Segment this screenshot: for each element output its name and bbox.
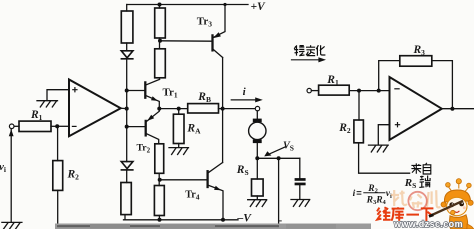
wire R2 to Rs terminal note	[359, 143, 410, 173]
wire colA bottom to -V	[124, 215, 126, 220]
formula equals sign	[357, 192, 362, 195]
wire colA to D1	[126, 43, 128, 51]
wire R3 to output	[432, 61, 453, 109]
wire capacitor stem	[299, 158, 301, 178]
arrow Tr1 emitter	[151, 96, 158, 101]
resistor colB second	[155, 49, 166, 78]
char yi	[406, 214, 419, 216]
svg-text:R1: R1	[30, 109, 43, 122]
wire R2 top stem	[57, 126, 59, 160]
ground U2 plus	[369, 145, 389, 152]
mascot pen	[429, 201, 463, 217]
svg-text:vi: vi	[0, 161, 6, 174]
node -V rail Tr4 emitter junction	[221, 218, 225, 222]
text 端 (Rs terminal)	[419, 176, 430, 188]
U2 minus sign	[394, 88, 399, 90]
svg-text:R2: R2	[338, 122, 351, 135]
node emitters junction	[157, 107, 161, 111]
node output stage junction	[221, 107, 225, 111]
arrow stabilization	[292, 59, 322, 61]
wire U1 plus input to ground	[47, 90, 69, 101]
svg-text:R3: R3	[413, 44, 426, 57]
mascot body	[450, 215, 468, 229]
transistor Q Tr3	[213, 5, 226, 58]
mascot bulbs	[449, 184, 469, 192]
watermark faded stamp 找芯片	[391, 190, 440, 208]
resistor R3	[400, 56, 432, 66]
wire R1 to op-amp minus	[349, 90, 389, 92]
char wei	[377, 207, 391, 220]
node Tr3 base divider junction	[158, 39, 162, 43]
wire colB to -V	[158, 216, 160, 220]
wire U1 minus input	[57, 125, 69, 127]
svg-text:RS: RS	[236, 164, 249, 177]
wire Tr2 base	[127, 126, 145, 128]
mascot eyes	[449, 202, 454, 207]
wire feedback up	[379, 61, 400, 91]
resistor R2 right	[354, 120, 364, 143]
wire RS to ground	[256, 196, 258, 200]
wire Rs stem	[256, 158, 258, 179]
svg-text:RB: RB	[197, 91, 211, 104]
node +V rail Tr3 emitter junction	[223, 3, 226, 6]
wire R2 stem	[358, 91, 360, 120]
wire U2 output	[442, 108, 474, 110]
wire -V rail	[124, 219, 239, 221]
svg-text:RA: RA	[186, 123, 201, 136]
ground RS	[248, 200, 267, 207]
char lai	[411, 163, 421, 173]
transistor Q Tr2	[146, 109, 160, 144]
resistor below Tr2	[155, 144, 164, 174]
resistor RS	[252, 179, 264, 196]
char xia	[421, 208, 434, 221]
wire colA mid	[126, 59, 128, 162]
watermark stamp red circle	[408, 192, 426, 210]
arrowhead current i	[255, 97, 263, 102]
logo text 维库一下 red	[377, 207, 433, 221]
resistor R2 left	[53, 161, 63, 191]
wire colB to Tr1 collector	[159, 78, 161, 80]
op-amp U1	[69, 80, 121, 137]
char ding	[306, 45, 315, 55]
wire colA to lower resistor	[126, 170, 128, 183]
node colB top	[159, 5, 161, 9]
arrow vi input up	[9, 129, 14, 136]
svg-text:Tr3: Tr3	[197, 16, 212, 29]
ground RA	[169, 148, 189, 155]
wire +V rail	[127, 4, 248, 6]
motor M brushes	[253, 119, 262, 123]
node Tr4 base junction	[158, 178, 162, 182]
svg-text:RS: RS	[404, 177, 417, 190]
wire motor to Vs node	[256, 143, 258, 158]
wire Tr4 base	[160, 179, 208, 181]
capacitor C plates	[295, 178, 306, 181]
U1 plus sign	[72, 87, 77, 92]
arrow Tr3 emitter	[213, 32, 221, 38]
svg-text:Tr1: Tr1	[163, 87, 178, 100]
svg-text:i: i	[243, 86, 247, 98]
mascot face	[447, 197, 467, 215]
svg-text:VS: VS	[283, 140, 294, 152]
wire Tr3 base feed	[160, 40, 211, 42]
mascot cartoon	[429, 179, 474, 229]
transistor Q Tr1	[145, 79, 159, 108]
node op-amp output junction	[125, 107, 129, 111]
wire R1 to node	[51, 125, 57, 127]
resistor colB bottom	[154, 186, 164, 216]
diode D1	[121, 51, 133, 59]
right circuit	[292, 56, 474, 174]
wire output bus	[159, 108, 187, 110]
arrow Vs pointer	[268, 147, 286, 155]
wire terminal to R1	[311, 90, 318, 92]
arrowheads mid	[255, 97, 271, 156]
char ku	[391, 207, 404, 221]
arrow current i	[231, 99, 258, 101]
mascot mouth	[454, 211, 459, 213]
formula i = R2/(R3R4) vi	[353, 184, 392, 206]
resistor colA bias lower	[121, 183, 131, 215]
wire Tr3/Tr4 collector column	[222, 58, 224, 163]
node +V rail colB junction	[158, 3, 162, 7]
resistor R1 left	[19, 121, 51, 131]
wire capacitor to ground	[299, 185, 301, 199]
wire colB junction	[159, 38, 161, 49]
text stabilization 稳定化	[294, 45, 325, 56]
ground U1 plus	[37, 101, 58, 107]
svg-text:R3R4: R3R4	[366, 195, 387, 206]
svg-text:R1: R1	[326, 74, 339, 87]
resistor R1 right	[319, 85, 350, 95]
wire Vs node bus	[257, 157, 300, 159]
wire R2 bottom stem	[57, 190, 59, 225]
arrowhead stabilization	[318, 57, 326, 62]
mascot head cap	[444, 190, 470, 202]
node -V rail colB junction	[158, 218, 162, 222]
svg-text:Tr2: Tr2	[137, 142, 151, 154]
wire drop bottom tick	[279, 220, 282, 222]
wire R1 terminal side	[14, 125, 19, 127]
svg-text:–V: –V	[237, 213, 253, 225]
wire U1 output	[121, 107, 127, 109]
resistor RB	[188, 104, 219, 113]
op-amp polarity signs	[72, 87, 400, 127]
wire terminal to motor	[256, 111, 258, 119]
char wen	[294, 45, 304, 55]
node dots right	[357, 89, 361, 93]
arrow Tr4 emitter	[214, 186, 221, 191]
node Tr1 base junction	[125, 89, 129, 93]
resistor colA bias upper	[121, 11, 133, 43]
node Tr2 base junction	[125, 125, 129, 129]
node R1 R2 inverting input junction	[55, 124, 59, 128]
op-amp U2	[390, 77, 442, 140]
ground capacitor	[291, 200, 310, 207]
char zi	[423, 163, 431, 174]
U1 minus sign	[72, 125, 77, 127]
wire Vs node drop to bottom	[278, 158, 280, 226]
wire RA to ground	[178, 144, 180, 148]
mascot ears	[441, 202, 446, 207]
wire to Tr4 base node	[158, 173, 160, 185]
node Vs dot	[255, 156, 259, 160]
mascot hand	[451, 210, 455, 214]
svg-text:www.dzsc.com: www.dzsc.com	[393, 219, 463, 229]
diode D2	[121, 162, 133, 170]
wire vi column	[10, 129, 12, 223]
resistor colB upper	[155, 8, 166, 38]
svg-text:R2: R2	[67, 169, 80, 182]
terminal output left circuit	[255, 106, 259, 110]
svg-text:i: i	[353, 189, 356, 199]
terminal input vi	[9, 124, 14, 129]
transistor Q Tr4	[208, 163, 223, 220]
ground vi	[2, 222, 22, 229]
svg-text:+V: +V	[251, 1, 267, 13]
mascot legs	[467, 224, 474, 229]
formula fraction bar	[363, 192, 385, 194]
node RA top junction	[177, 107, 181, 111]
motor M body	[249, 122, 266, 139]
mascot cheeks	[447, 207, 450, 210]
text 来自 from	[411, 163, 430, 174]
wire Tr1 base	[127, 90, 145, 92]
char hua	[316, 45, 325, 56]
wire U2 plus to ground	[378, 125, 389, 145]
arrow Tr2 emitter	[147, 115, 154, 121]
resistor RA	[173, 114, 184, 143]
node colA top stem	[126, 5, 128, 12]
arrowhead Vs pointer	[264, 151, 271, 156]
watermark gray band bottom	[55, 224, 371, 230]
wire RB to output node	[219, 108, 256, 110]
terminal right circuit input	[307, 88, 311, 92]
svg-text:Tr4: Tr4	[185, 189, 200, 201]
resistor RA stem	[178, 109, 180, 115]
U2 plus sign	[395, 122, 400, 127]
